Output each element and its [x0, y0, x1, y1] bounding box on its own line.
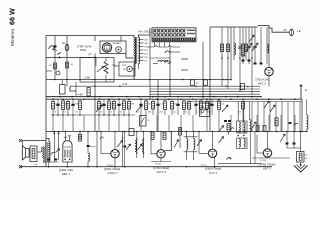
wire vertical x80: [79, 132, 81, 141]
wire top right verticals: [242, 27, 244, 64]
wire transformer top right: [138, 28, 150, 38]
diode arrows near V5: [280, 134, 285, 142]
wire bus rail b3: [150, 91, 260, 93]
cap blob left of T2: [123, 146, 126, 148]
coil L2: [158, 60, 168, 62]
dashes approx: [181, 58, 188, 60]
wire bottom rail mid: [151, 161, 171, 163]
cap blobs speaker: [47, 159, 50, 161]
avc arrows row: [96, 105, 102, 112]
field coil box: [30, 146, 37, 162]
wire vertical x302: [301, 99, 303, 131]
wire bottom rail mid2: [218, 163, 262, 165]
small box cluster a: [191, 80, 195, 86]
capacitor blobs right: [242, 60, 245, 62]
wire vertical x122: [122, 132, 124, 167]
svg-text:E: E: [305, 88, 307, 92]
svg-text:µF: µF: [89, 53, 92, 56]
component box x241: [241, 84, 245, 90]
svg-text:J 017.2: J 017.2: [156, 170, 166, 174]
trimmer arrows left of IF3: [219, 126, 224, 133]
wire rail y86: [70, 85, 260, 87]
resistor Rd dark: [241, 44, 244, 56]
cap blob x88: [87, 132, 89, 146]
svg-text:2M: 2M: [148, 112, 151, 114]
switch S1: [57, 53, 61, 55]
tube V6 NF: [265, 67, 273, 75]
ground: [294, 166, 308, 173]
terminal X1: [19, 139, 22, 142]
IF transformer T3 upper: [237, 121, 248, 133]
tube V1 output: [63, 141, 72, 162]
wire vertical x120 lower: [124, 132, 126, 167]
wire top stub x95: [94, 36, 96, 42]
box small above T2: [129, 129, 134, 136]
wire vertical x158: [157, 79, 159, 132]
tube V7 indicator: [102, 43, 111, 52]
script C left of T3: [230, 128, 234, 130]
box small x141b: [140, 116, 147, 127]
box output right: [297, 152, 305, 163]
small circle mid-left: [56, 71, 60, 75]
svg-text:+ E: + E: [296, 29, 300, 33]
svg-text:66 W: 66 W: [8, 8, 17, 25]
wire x240 stub: [239, 89, 241, 92]
coil top right: [267, 44, 269, 53]
wire right verticals: [251, 102, 253, 132]
wire bottom rail right: [252, 157, 290, 159]
tube V4: [208, 149, 216, 157]
wire drop x55: [54, 58, 56, 80]
wire bottom rail: [21, 166, 272, 168]
capacitor script near V2: [100, 137, 104, 139]
tube V1 electrodes: [63, 150, 65, 158]
switch bank box: [152, 28, 196, 42]
IF transformer T2 winding a: [135, 141, 136, 152]
wire V6 down: [268, 76, 270, 86]
box mid: [60, 85, 66, 95]
resistor Ra: [220, 44, 223, 52]
wire frame verticals: [221, 27, 223, 86]
capacitor script C b: [165, 61, 169, 63]
output transformer winding B: [49, 142, 50, 162]
wire speaker links: [28, 151, 31, 153]
resistor x80: [78, 135, 81, 142]
capacitor C1: [54, 46, 57, 48]
small rect b right: [263, 126, 266, 132]
wire vertical x95: [94, 54, 96, 132]
wire row bottom bus: [51, 114, 135, 116]
trimmer Ct2: [253, 45, 257, 47]
wire T3 verticals: [237, 102, 239, 122]
antenna arrow E: [300, 85, 302, 100]
IF transformer T5 winding a: [187, 139, 188, 150]
wire drops to y131: [52, 115, 54, 132]
switch box drop wires: [154, 42, 156, 47]
box volume control: [80, 58, 114, 83]
script C near V4: [227, 157, 231, 159]
svg-text:MIGAFIL: MIGAFIL: [113, 42, 123, 45]
capacitor script C a: [165, 51, 169, 53]
wire tube box: [100, 41, 126, 54]
wire stub osc: [170, 51, 180, 53]
wire blob links: [286, 132, 288, 143]
wire vertical x54: [53, 133, 55, 135]
trimmer arrows right col: [264, 101, 269, 108]
resistor R5: [54, 63, 57, 69]
trimmer arrow top: [249, 35, 254, 42]
potentiometer P1 zigzag: [104, 61, 108, 74]
coil La2: [234, 43, 236, 55]
transformer taps: [138, 39, 143, 41]
wire vertical x210: [209, 27, 211, 132]
wire vertical x150: [149, 35, 151, 99]
wire rail y79: [46, 79, 231, 81]
tube V2: [111, 150, 119, 158]
transformer T secondary winding: [138, 38, 139, 64]
IF T5 bracket: [184, 136, 198, 138]
wire top right rail: [258, 25, 269, 27]
IF transformer T3 lower: [237, 138, 248, 149]
coil right edge: [307, 115, 308, 130]
coil x88 lower: [88, 153, 89, 161]
trimmer Ct1: [247, 45, 251, 47]
transformer core lines: [45, 142, 47, 162]
capacitor Ca: [238, 46, 242, 48]
svg-text:1TRK VOV4: 1TRK VOV4: [77, 45, 92, 49]
wire bus rail b2: [150, 88, 260, 90]
transformer T primary winding: [134, 38, 135, 64]
wire rail y99: [46, 98, 302, 100]
component row below rails: [52, 99, 54, 102]
wire tube V2 pins: [114, 132, 116, 150]
wire V3 right: [165, 132, 171, 151]
output transformer winding A: [43, 147, 44, 163]
junction dots y131: [54, 131, 56, 133]
svg-text:Minerva: Minerva: [10, 29, 16, 46]
arrow T2: [138, 144, 143, 150]
resistor x228: [227, 124, 230, 132]
small rect a right: [256, 126, 259, 132]
resistor above V3 a: [151, 132, 154, 140]
wire tube V5 pins: [267, 132, 269, 149]
junction dots rails: [54, 79, 56, 81]
arrow near V2: [117, 141, 123, 148]
blobs right verticals: [289, 122, 292, 124]
junction dots bottom rail: [48, 166, 50, 168]
svg-text:2,4F: 2,4F: [122, 83, 127, 86]
resistor right col: [275, 118, 278, 126]
svg-text:1M: 1M: [75, 104, 78, 106]
lamp La: [116, 47, 122, 53]
wire tube V1 pins: [64, 132, 66, 141]
box mid right: [200, 103, 210, 117]
box 150 lamp: [119, 62, 135, 76]
wire vertical x250b: [249, 132, 251, 164]
dial cord: [146, 46, 180, 48]
wire rail y101: [188, 101, 302, 103]
wire vertical x76 pot: [75, 82, 77, 97]
tube V5: [263, 149, 271, 157]
wire osc coil link: [150, 57, 170, 59]
wire vertical x97: [96, 132, 98, 167]
title Minerva 66 W (rotated): [8, 8, 17, 46]
resistor R6: [66, 62, 69, 68]
svg-text:1,4M: 1,4M: [84, 76, 90, 79]
wire bus rail b4: [150, 93, 260, 95]
wire vertical x231: [230, 27, 232, 79]
IF transformer T5 winding b: [194, 139, 195, 150]
capacitor script C spk: [51, 152, 55, 154]
transformer core: [135, 37, 137, 64]
antenna symbol C: [49, 46, 57, 51]
svg-text:1M: 1M: [131, 104, 134, 106]
junction dots frame: [221, 57, 223, 59]
arrow T5: [197, 140, 202, 147]
wire stub 96: [95, 58, 97, 67]
IF transformer T2 winding b: [142, 141, 143, 152]
cap blobs above ground: [286, 142, 289, 144]
script C right col: [294, 123, 298, 125]
svg-text:Masse: Masse: [90, 146, 97, 148]
small box cluster b: [204, 80, 208, 86]
switch bank cells: [153, 29, 156, 33]
svg-text:YES: YES: [122, 65, 127, 67]
svg-text:807.3: 807.3: [263, 167, 271, 171]
svg-text:J 021.2: J 021.2: [107, 171, 117, 175]
arrow pot wiper: [97, 67, 104, 73]
wire corner to speaker jack: [269, 26, 289, 33]
arrow left of T2: [126, 144, 131, 150]
svg-text:4,4M: 4,4M: [77, 93, 82, 96]
wire tube V4 pins: [212, 132, 214, 150]
speaker LS: [26, 148, 30, 157]
wire lamp drop: [126, 54, 133, 59]
wire rail y96 thick: [46, 96, 262, 98]
resistor right V3: [179, 128, 182, 136]
svg-text:C71.3: C71.3: [209, 171, 217, 175]
wire vertical x203: [202, 42, 204, 99]
resistor Rb: [226, 44, 229, 52]
cap blobs mid: [224, 120, 227, 122]
wire vertical x255b: [254, 132, 256, 164]
wire vertical x58: [58, 133, 60, 135]
wire bottom links spk: [43, 161, 58, 163]
tube V3: [157, 150, 165, 158]
switch bank legend rows: [187, 30, 195, 31]
wire input box frame: [46, 35, 121, 37]
switch bank bottom strip: [153, 38, 196, 42]
svg-text:NF1.3: NF1.3: [258, 82, 267, 86]
svg-text:4 nn: 4 nn: [223, 80, 228, 82]
wire left main vertical: [45, 36, 47, 167]
wire rail y131: [46, 131, 308, 133]
wire tube V3 pins: [160, 132, 162, 150]
diode arrow V3: [174, 140, 179, 148]
wire ground drop: [300, 132, 302, 152]
resistor Rc: [244, 44, 247, 52]
wire drop x67: [66, 58, 68, 87]
terminal X2: [19, 165, 22, 168]
svg-text:DSN: DSN: [80, 48, 86, 52]
wire vertical x170: [169, 47, 171, 97]
wire top frame rail: [210, 26, 258, 28]
arrow spk: [56, 149, 60, 153]
wire vertical x272: [268, 26, 270, 68]
resistor above V3 b: [163, 132, 166, 140]
coil x249: [250, 120, 252, 132]
wire transformer top left: [121, 36, 134, 38]
svg-text:EBL 1: EBL 1: [62, 172, 70, 176]
wire transformer bottom: [133, 64, 135, 80]
